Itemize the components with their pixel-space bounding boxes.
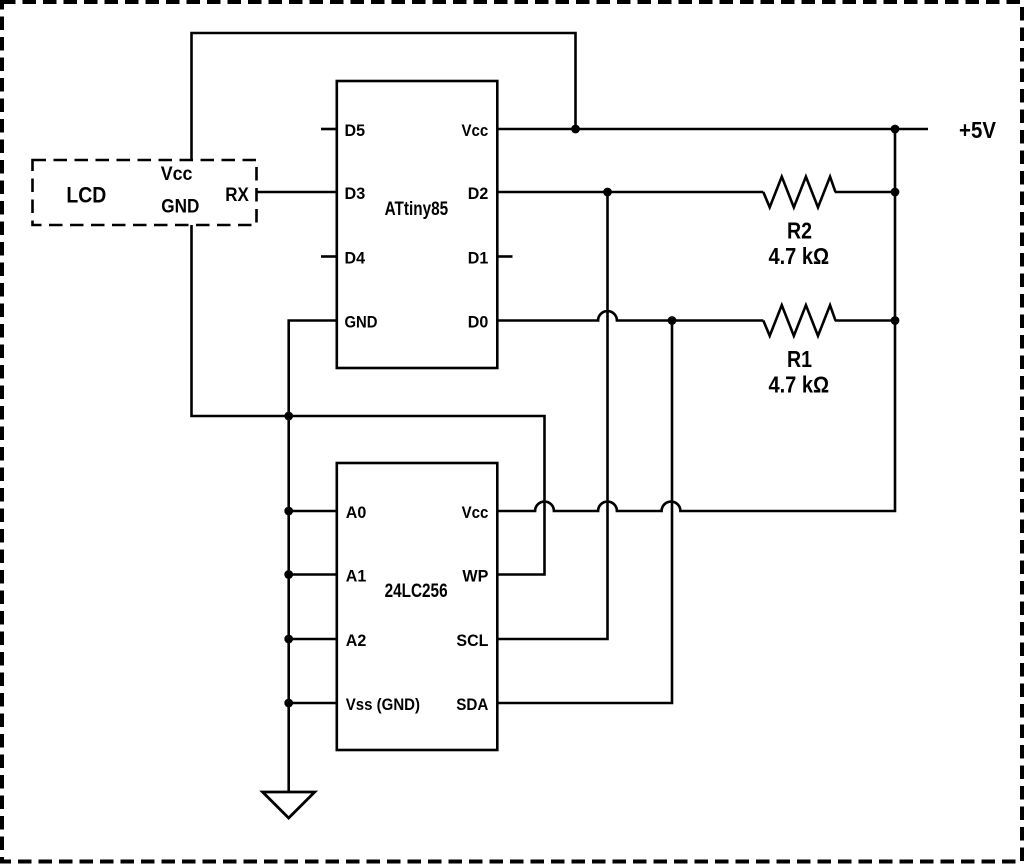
- svg-text:A1: A1: [346, 566, 367, 585]
- svg-text:A0: A0: [346, 503, 367, 522]
- svg-text:GND: GND: [345, 312, 378, 331]
- svg-text:+5V: +5V: [959, 117, 997, 143]
- svg-text:Vcc: Vcc: [462, 121, 489, 140]
- svg-text:4.7 kΩ: 4.7 kΩ: [768, 243, 829, 269]
- svg-text:Vcc: Vcc: [462, 503, 489, 522]
- svg-text:SCL: SCL: [456, 631, 488, 650]
- svg-text:ATtiny85: ATtiny85: [385, 199, 449, 220]
- svg-text:A2: A2: [346, 631, 367, 650]
- svg-text:D0: D0: [468, 312, 489, 331]
- svg-text:LCD: LCD: [66, 182, 106, 207]
- svg-text:D1: D1: [468, 248, 489, 267]
- svg-text:Vcc: Vcc: [161, 164, 193, 185]
- svg-text:D4: D4: [345, 248, 366, 267]
- svg-text:Vss (GND): Vss (GND): [346, 695, 420, 714]
- svg-text:D5: D5: [345, 121, 366, 140]
- svg-text:24LC256: 24LC256: [385, 581, 448, 602]
- svg-text:SDA: SDA: [456, 695, 488, 714]
- svg-text:RX: RX: [225, 185, 249, 206]
- svg-text:GND: GND: [161, 197, 199, 218]
- svg-text:R2: R2: [787, 218, 812, 244]
- svg-text:D3: D3: [345, 184, 366, 203]
- svg-text:4.7 kΩ: 4.7 kΩ: [768, 372, 829, 398]
- svg-text:D2: D2: [468, 184, 489, 203]
- svg-text:WP: WP: [462, 566, 488, 585]
- svg-text:R1: R1: [787, 346, 812, 372]
